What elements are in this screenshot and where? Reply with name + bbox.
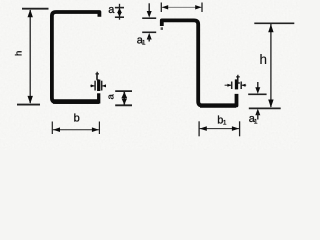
dimension a1 (bottom right of Z, lip height) [248, 82, 266, 120]
a1 upper line [148, 3, 150, 12]
a2 up arrowhead [122, 92, 128, 98]
h right top extension line [254, 22, 294, 24]
h right dimension line [270, 24, 272, 107]
svg-text:h: h [260, 52, 268, 67]
b right arrowhead [92, 127, 99, 132]
t right arrowhead [102, 84, 106, 87]
C bottom lip [97, 93, 100, 103]
a2 down arrowhead [122, 98, 128, 104]
h top arrowhead [28, 9, 33, 17]
t z left tick [231, 82, 233, 90]
t z right arrowhead [241, 84, 245, 87]
top dim left tick [160, 3, 162, 13]
t right tick [101, 81, 103, 91]
svg-text:1: 1 [254, 118, 258, 125]
dimension b1 top (flange width of Z) [161, 3, 202, 13]
t z left arrowhead [227, 84, 231, 87]
dimension a (top right of C, lip height) [115, 4, 124, 20]
dimension b (bottom of C) [52, 122, 99, 135]
h right bottom arrowhead [268, 100, 273, 108]
dimension h (right of Z) [249, 23, 294, 108]
a1 br lower line [257, 113, 259, 120]
h bottom extension line [17, 104, 40, 106]
top right arrowhead [195, 5, 201, 9]
svg-text:t: t [236, 72, 240, 86]
h right / a1 shared bottom extension line [249, 107, 281, 109]
dimension t (thickness, Z bottom lip) [225, 82, 247, 90]
b right tick [98, 122, 100, 135]
t z dim line left segment [225, 84, 232, 86]
t left tick [94, 81, 96, 91]
dimension a1 (left of Z, lip height) [142, 3, 156, 41]
t z right tick [240, 82, 242, 90]
t dim line right segment [102, 85, 106, 87]
a up arrowhead [117, 8, 122, 13]
b left arrowhead [53, 127, 60, 132]
b dimension line [53, 129, 99, 131]
a top tick [115, 7, 124, 9]
a1 upper tick [142, 17, 156, 19]
a2 dimension line [123, 92, 125, 106]
h dimension line [29, 10, 31, 103]
dimension t (thickness, bottom right of C) [90, 81, 106, 91]
h right top arrowhead [268, 24, 273, 32]
dimension a (bottom right of C, lip height, vertical) [115, 91, 132, 105]
a dimension line [119, 4, 121, 20]
svg-text:t: t [95, 70, 99, 84]
Z top lip faint extension [161, 27, 163, 30]
b1 left arrowhead [200, 126, 207, 131]
h top extension line [22, 8, 49, 10]
Z bottom flange (thicker) [200, 103, 236, 107]
Z-profile body [162, 20, 237, 105]
b1 right tick [239, 121, 241, 136]
svg-text:a: a [108, 4, 115, 16]
a1 lower tick [142, 31, 156, 33]
a down arrowhead [117, 12, 122, 17]
a2 top tick [115, 90, 132, 92]
b1 right arrowhead [232, 126, 239, 131]
svg-text:h: h [13, 51, 24, 56]
top left arrowhead [162, 5, 168, 9]
t dim line left segment [90, 85, 94, 87]
b1 left tick [198, 121, 200, 136]
a1 lower arrowhead [147, 33, 152, 40]
t z dim line right segment [242, 84, 247, 86]
b1 dimension line [200, 128, 240, 130]
C bottom flange (thicker) [53, 99, 99, 104]
b left tick [51, 122, 53, 135]
C bottom lip extension (t reference) [97, 80, 100, 91]
Z bottom lip extension (t reference) [235, 79, 238, 89]
a1 br lower arrowhead [255, 109, 260, 116]
top dimension line [162, 6, 202, 8]
svg-text:a: a [105, 94, 116, 100]
h bottom arrowhead [28, 96, 33, 104]
svg-text:1: 1 [223, 120, 227, 127]
top dim right tick [201, 3, 203, 13]
a1 upper arrowhead [147, 11, 152, 18]
t left arrowhead [91, 84, 95, 87]
svg-text:1: 1 [142, 40, 146, 47]
a1 br upper arrowhead [255, 87, 260, 94]
svg-text:b: b [74, 113, 80, 125]
a2 bottom tick [115, 104, 132, 106]
C-profile body [52, 12, 100, 102]
a bottom tick [115, 16, 124, 18]
a1 br upper tick [248, 93, 266, 95]
dimension b1 (bottom of Z) [199, 121, 240, 136]
a1 br upper line [257, 82, 259, 89]
dimension h (left) [17, 9, 49, 105]
a1 lower line [148, 37, 150, 42]
